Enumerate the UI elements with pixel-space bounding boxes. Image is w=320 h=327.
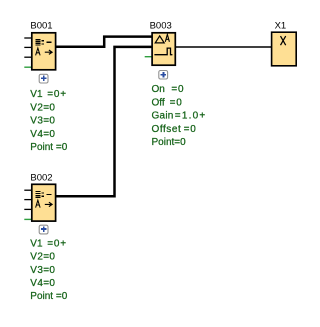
svg-text:V1: V1	[30, 89, 43, 100]
expand button B003	[159, 71, 168, 80]
block B002 (analog multiplexer)	[24, 173, 67, 303]
svg-text:V3=0: V3=0	[30, 116, 55, 127]
expand button B001	[39, 74, 48, 83]
svg-text:=1.0+: =1.0+	[175, 111, 207, 122]
svg-text:On: On	[152, 84, 165, 95]
svg-text:V1: V1	[30, 238, 43, 249]
wire B002 output to B003 input 2	[56, 47, 152, 196]
svg-text:Point =0: Point =0	[30, 291, 67, 302]
svg-text:V4=0: V4=0	[30, 129, 55, 140]
block B001 (analog multiplexer)	[24, 20, 67, 153]
icon B002 analog multiplexer	[36, 191, 52, 198]
pin B001 input 4 (analog, green)	[24, 66, 31, 68]
icon B003 threshold trigger	[155, 36, 164, 43]
wire B003 output to X1 input	[176, 46, 272, 48]
svg-text:V2=0: V2=0	[30, 102, 55, 113]
svg-text:B003: B003	[150, 20, 172, 31]
block B003 (analog threshold trigger)	[145, 20, 207, 148]
pin B003 input 3 (analog, green)	[145, 56, 152, 58]
svg-text:Gain: Gain	[152, 111, 174, 122]
svg-text:=0+: =0+	[47, 89, 67, 100]
svg-text:=0: =0	[171, 84, 184, 95]
svg-text:V2=0: V2=0	[30, 252, 55, 263]
svg-text:B002: B002	[30, 173, 52, 184]
pin B001 input 2	[24, 46, 31, 48]
svg-text:V3=0: V3=0	[30, 265, 55, 276]
body B002	[32, 184, 56, 221]
body X1	[272, 32, 297, 66]
svg-text:B001: B001	[30, 20, 52, 31]
pin B002 input 4 (analog, green)	[24, 218, 31, 220]
pin B002 input 2	[24, 199, 31, 201]
body B001	[32, 33, 56, 70]
svg-text:V4=0: V4=0	[30, 278, 55, 289]
icon X1	[281, 36, 286, 45]
svg-text:=0: =0	[184, 124, 197, 135]
pin B001 input 3	[24, 56, 31, 58]
pin B002 input 1	[24, 189, 31, 191]
block X1 (output connector)	[272, 20, 297, 66]
svg-text:Offset: Offset	[152, 124, 182, 135]
pin B002 input 3	[24, 208, 31, 210]
svg-text:=0: =0	[170, 97, 183, 108]
svg-text:Point =0: Point =0	[30, 142, 67, 153]
icon B001 analog multiplexer	[36, 39, 52, 46]
svg-text:=0+: =0+	[47, 238, 67, 249]
svg-text:X1: X1	[275, 20, 287, 31]
body B003	[152, 33, 175, 65]
expand button B002	[39, 225, 48, 234]
svg-text:Point=0: Point=0	[152, 137, 187, 148]
wire B001 output to B003 input 1	[56, 37, 152, 47]
svg-text:Off: Off	[152, 97, 165, 108]
pin B001 input 1	[24, 37, 31, 39]
